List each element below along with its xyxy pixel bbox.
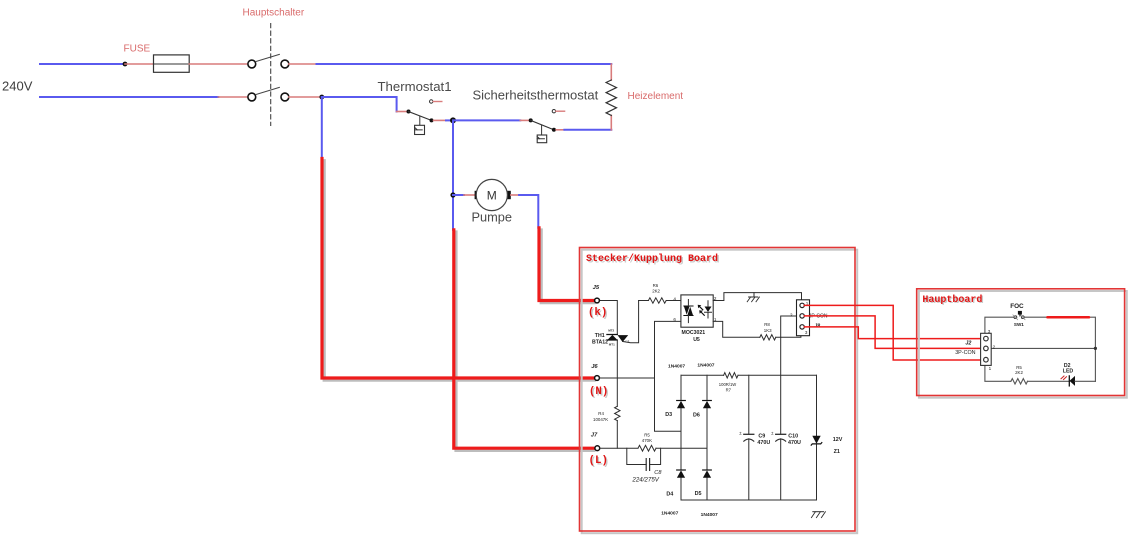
triac TH1 down triangle	[618, 335, 629, 342]
svg-text:R7: R7	[726, 388, 732, 393]
wire blue junction A down to pump	[452, 120, 454, 229]
wire L1 blue to heater corner	[317, 63, 612, 65]
wire J7 row to network	[600, 447, 638, 449]
svg-text:(k): (k)	[588, 307, 607, 319]
wire red pump right	[511, 194, 519, 196]
wire red pump left	[464, 194, 475, 196]
svg-text:R8: R8	[764, 322, 770, 327]
svg-text:2K2: 2K2	[1015, 370, 1023, 375]
LED red emission marks	[1061, 376, 1067, 380]
middle rail J2.2	[991, 347, 1095, 349]
svg-text:12V: 12V	[833, 437, 843, 443]
terminal J5	[595, 298, 600, 303]
zener Z1	[816, 375, 818, 500]
svg-text:D6: D6	[693, 412, 700, 418]
capacitor C10 plates	[776, 433, 786, 435]
diode D4	[677, 469, 686, 471]
svg-text:3P-CON: 3P-CON	[955, 350, 975, 356]
svg-text:MT2: MT2	[608, 328, 614, 332]
wire TH1 down to R4	[616, 340, 618, 406]
top rail to right corner	[1024, 317, 1095, 381]
fuse F1 body	[154, 63, 190, 65]
wire blue L2 to thermostat corner	[322, 97, 397, 112]
wire blue down to N cable	[321, 97, 323, 159]
node junction A dot	[450, 117, 456, 123]
thermostat1 sensor box	[419, 116, 421, 125]
svg-text:Hauptboard: Hauptboard	[922, 294, 982, 306]
svg-text:(L): (L)	[589, 455, 608, 467]
U5 internal LED	[705, 307, 712, 313]
capacitor C9	[748, 375, 750, 500]
wire J5 to triac node	[600, 301, 618, 335]
heater Heizelement resistor zigzag	[606, 80, 616, 115]
wire red stub thermostat1	[397, 111, 407, 113]
switch SW1 button	[1018, 311, 1022, 315]
connector J8 box	[797, 300, 810, 336]
svg-text:J6: J6	[591, 364, 598, 370]
svg-text:R5: R5	[644, 432, 650, 437]
Hauptschalter dashed link line	[270, 24, 272, 126]
svg-text:Pumpe: Pumpe	[472, 210, 513, 225]
svg-text:Sicherheitsthermostat: Sicherheitsthermostat	[473, 88, 599, 103]
wire junction to J8 pin2	[781, 316, 797, 337]
hauptboard border shadow	[919, 291, 1127, 398]
svg-text:FOC: FOC	[1010, 303, 1024, 310]
svg-text:C4: C4	[626, 339, 630, 343]
bridge right branch wires	[706, 375, 708, 500]
wire L2 blue left	[40, 96, 218, 98]
wire R4 to J7 row	[616, 421, 618, 449]
diode D6	[703, 400, 712, 402]
wire red after thermostat1	[434, 119, 447, 121]
svg-text:C10: C10	[788, 433, 798, 439]
svg-text:470K: 470K	[642, 438, 652, 443]
capacitor C8 branch	[627, 448, 661, 464]
wire C10 branch vertical	[780, 337, 782, 500]
wire L2 red to switch	[218, 96, 247, 98]
terminal J7	[595, 446, 600, 451]
svg-text:LED: LED	[1063, 369, 1074, 375]
svg-text:J2: J2	[965, 340, 971, 346]
node junction dot L2	[319, 95, 324, 100]
ground bottom symbol	[813, 511, 824, 513]
wire blue to heater bottom corner	[564, 129, 611, 131]
wire U5 pin1 to R8	[713, 321, 760, 337]
svg-text:TH1: TH1	[595, 333, 605, 339]
wire red after sicherheitsthermostat	[556, 129, 564, 131]
switch S1a Hauptschalter pole 1	[248, 60, 256, 68]
svg-text:1N4007: 1N4007	[668, 363, 685, 369]
svg-text:D4: D4	[666, 491, 673, 497]
top rail with resistor R7	[681, 374, 817, 376]
svg-text:D5: D5	[695, 491, 702, 497]
triac TH1 up triangle	[608, 335, 618, 340]
board border shadow	[582, 250, 858, 534]
switch SW1 contacts	[1014, 316, 1017, 319]
svg-text:100R/1W: 100R/1W	[719, 382, 737, 387]
resistor R5 zigzag	[638, 445, 656, 451]
svg-text:C9: C9	[758, 433, 765, 439]
diode D3	[677, 400, 686, 402]
cable k red thick	[539, 228, 595, 301]
svg-text:1N4007: 1N4007	[661, 510, 678, 516]
svg-text:Hauptschalter: Hauptschalter	[243, 7, 305, 18]
triac TH1 bars	[607, 335, 617, 341]
svg-text:FUSE: FUSE	[124, 44, 151, 55]
LED D2	[1068, 376, 1070, 386]
wire L1 red after switch	[289, 63, 317, 65]
svg-text:Z1: Z1	[834, 449, 840, 455]
U5 internal triac	[684, 306, 690, 315]
bottom rail	[681, 499, 817, 501]
red highlight segment on rail	[1047, 316, 1089, 319]
svg-text:MOC3021: MOC3021	[682, 330, 706, 336]
svg-text:MT1: MT1	[609, 343, 615, 347]
svg-text:BTA12: BTA12	[592, 340, 608, 346]
svg-text:470U: 470U	[757, 440, 770, 446]
wire J7 row to bridge right mid	[656, 447, 707, 449]
svg-text:M: M	[487, 188, 497, 202]
node dot right end	[1094, 347, 1097, 350]
thermostat1 open terminal	[430, 100, 433, 103]
wire blue pump right corner down	[519, 195, 538, 228]
cable shadow k	[541, 230, 594, 303]
sicherheitsthermostat sensor box	[541, 125, 543, 135]
svg-text:C8: C8	[654, 470, 662, 476]
bridge left branch wires	[680, 375, 682, 500]
wire red J8.1 to J2.1	[804, 305, 983, 360]
svg-text:1N4007: 1N4007	[697, 363, 714, 369]
motor M1 Pumpe terminals	[475, 191, 480, 199]
svg-text:1N4007: 1N4007	[701, 512, 718, 518]
cable shadow N	[324, 161, 594, 381]
wire U5 pin2 to top rail to J8 pin1	[713, 293, 801, 304]
resistor R8 zigzag	[760, 335, 776, 340]
wire L2 red after switch	[289, 96, 322, 98]
svg-text:SW1: SW1	[1014, 322, 1024, 327]
wire red J8.2 to J2.2	[804, 316, 983, 349]
svg-text:470U: 470U	[788, 440, 801, 446]
wire blue pump left stub	[453, 194, 464, 196]
wire U5 pin6 to bridge left mid	[655, 321, 682, 431]
wire R5 to LED	[1028, 380, 1070, 382]
optocoupler U5 MOC3021 box	[681, 295, 713, 327]
svg-text:(N): (N)	[589, 386, 608, 398]
connector J2 box	[981, 333, 992, 365]
svg-text:Thermostat1: Thermostat1	[378, 79, 452, 94]
svg-text:3: 3	[988, 329, 991, 334]
wire red J8.3 to J2.3	[804, 327, 983, 339]
svg-text:U5: U5	[693, 337, 700, 343]
node junction dot L1	[123, 62, 128, 67]
svg-text:Stecker/Kupplung Board: Stecker/Kupplung Board	[586, 253, 718, 265]
svg-text:2: 2	[790, 312, 793, 317]
svg-text:J7: J7	[591, 432, 598, 438]
svg-text:J5: J5	[593, 285, 600, 291]
bottom rail from J2.1	[985, 365, 1011, 381]
motor M1 Pumpe body	[476, 179, 507, 210]
svg-text:2: 2	[993, 345, 996, 350]
cable N red thick	[322, 159, 595, 379]
diode D5	[703, 469, 712, 471]
sicherheitsthermostat contact dots and lever	[529, 118, 533, 122]
svg-text:1: 1	[989, 366, 992, 371]
cable L red thick	[454, 230, 595, 448]
hauptboard border	[917, 289, 1125, 396]
ground top symbol	[749, 293, 758, 297]
terminal J6	[595, 376, 600, 381]
triac TH1 gate wire to R6	[623, 301, 639, 343]
resistor R5 2K2 zigzag	[1011, 379, 1028, 384]
svg-text:10047K: 10047K	[593, 417, 608, 422]
switch S1b Hauptschalter pole 2	[248, 93, 256, 101]
svg-text:Heizelement: Heizelement	[628, 91, 684, 102]
wire R8 to J8 pin3 riser	[776, 330, 801, 337]
wire L1 red fuse to switch	[189, 63, 247, 65]
sicherheitsthermostat open terminal	[552, 110, 555, 113]
U5 internal arrows	[699, 306, 705, 316]
svg-text:240V: 240V	[2, 79, 33, 94]
cable shadow L	[456, 232, 594, 450]
heater Heizelement red stubs	[610, 64, 612, 130]
wire blue to junction A	[446, 119, 453, 121]
resistor R6 wire and zigzag	[639, 300, 681, 302]
node pump junction dot	[450, 192, 455, 197]
svg-text:1K3: 1K3	[764, 328, 772, 333]
resistor R4 zigzag	[615, 406, 620, 420]
wire J2.3 up to top rail	[985, 317, 1014, 333]
svg-text:R6: R6	[653, 283, 659, 288]
wire J6 row	[600, 377, 655, 379]
wire blue junction A right	[453, 119, 520, 121]
wire L1 blue left	[40, 63, 125, 65]
thermostat1 contact dots and lever	[407, 110, 411, 114]
svg-text:3: 3	[805, 330, 808, 335]
wire red stub sicherheitsthermostat	[520, 119, 528, 121]
svg-text:224/275V: 224/275V	[631, 476, 659, 483]
svg-text:D3: D3	[665, 412, 672, 418]
board border Stecker/Kupplung	[580, 248, 856, 532]
svg-text:R4: R4	[598, 411, 604, 416]
wire L1 red to fuse	[125, 63, 154, 65]
svg-text:2K2: 2K2	[652, 288, 660, 293]
svg-text:4: 4	[673, 296, 676, 301]
